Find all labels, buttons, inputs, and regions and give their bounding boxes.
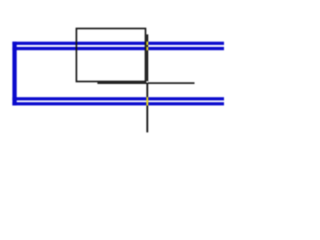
bus tap crossing bottom (yellow) (146, 97, 148, 105)
wire horizontal (97, 82, 194, 84)
bus top segment outer line (12, 42, 224, 45)
bus bottom segment outer line (12, 102, 224, 105)
bus tap crossing top upper bar (yellow) (146, 42, 148, 45)
junction gap node (white dot) (146, 81, 148, 83)
component outline U1 (black rectangle) (76, 29, 145, 82)
bus top segment inner line (12, 47, 224, 50)
wire vertical (146, 34, 148, 132)
bus bottom segment inner line (12, 97, 224, 100)
bus tap crossing top lower bar (yellow) (146, 47, 148, 50)
bus left vertical segment (12, 42, 16, 106)
